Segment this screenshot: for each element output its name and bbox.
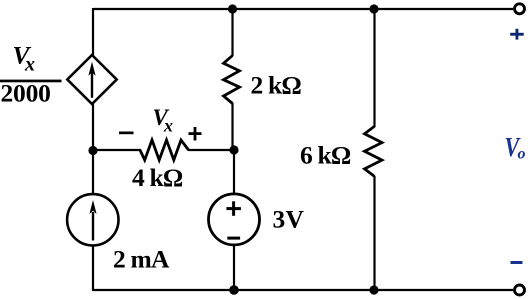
wire top rail <box>93 8 513 10</box>
svg-text:3: 3 <box>273 205 286 234</box>
svg-text:4 kΩ: 4 kΩ <box>132 163 183 192</box>
junction dot top-6k <box>369 4 378 13</box>
svg-text:2000: 2000 <box>1 79 51 108</box>
minus sign left of Vx <box>119 132 134 135</box>
svg-text:o: o <box>518 146 526 163</box>
wire left branch lower <box>92 245 94 291</box>
svg-text:x: x <box>24 54 35 76</box>
wire 3V branch lower <box>233 245 235 292</box>
resistor R 4k zigzag <box>140 140 189 160</box>
wire 2k branch upper <box>231 9 233 56</box>
svg-text:2 kΩ: 2 kΩ <box>251 71 302 100</box>
terminal bottom right <box>515 285 525 295</box>
junction dot bottom-3V <box>229 285 239 295</box>
junction dot bottom-6k <box>369 285 378 294</box>
wire left branch middle <box>92 103 94 196</box>
junction dot top-2k <box>228 4 237 13</box>
wire bottom rail <box>93 289 513 291</box>
terminal top right <box>515 4 525 14</box>
wire 6k branch lower <box>373 176 375 291</box>
label Vo (blue) <box>505 133 526 163</box>
voltage source plus <box>226 201 241 216</box>
svg-text:x: x <box>163 116 173 136</box>
wire middle horizontal left <box>93 149 141 151</box>
resistor 2k zigzag <box>224 56 240 104</box>
wire 6k branch upper <box>373 9 375 127</box>
output minus sign (blue) <box>511 261 523 264</box>
voltage source 3V circle <box>209 194 260 245</box>
junction dot mid-right <box>229 145 238 154</box>
svg-text:V: V <box>286 205 305 234</box>
current source I1 2mA circle <box>67 194 118 245</box>
label Vx middle <box>153 105 174 136</box>
plus sign right of Vx <box>189 127 202 141</box>
current source I1 arrow <box>89 200 96 241</box>
svg-text:6 kΩ: 6 kΩ <box>300 141 351 170</box>
output plus sign (blue) <box>510 29 524 40</box>
wire left branch upper <box>92 8 94 56</box>
voltage source minus <box>227 237 240 240</box>
wire 3V branch upper <box>233 150 235 195</box>
dependent source arrow <box>88 62 95 98</box>
junction dot mid-left <box>88 146 97 155</box>
resistor 6k zigzag <box>365 126 383 176</box>
label Vx/2000 <box>0 41 62 108</box>
dependent source diamond <box>67 55 116 104</box>
svg-text:2 mA: 2 mA <box>113 245 170 274</box>
wire 2k branch lower <box>231 103 233 150</box>
wire middle horizontal right <box>188 149 234 151</box>
